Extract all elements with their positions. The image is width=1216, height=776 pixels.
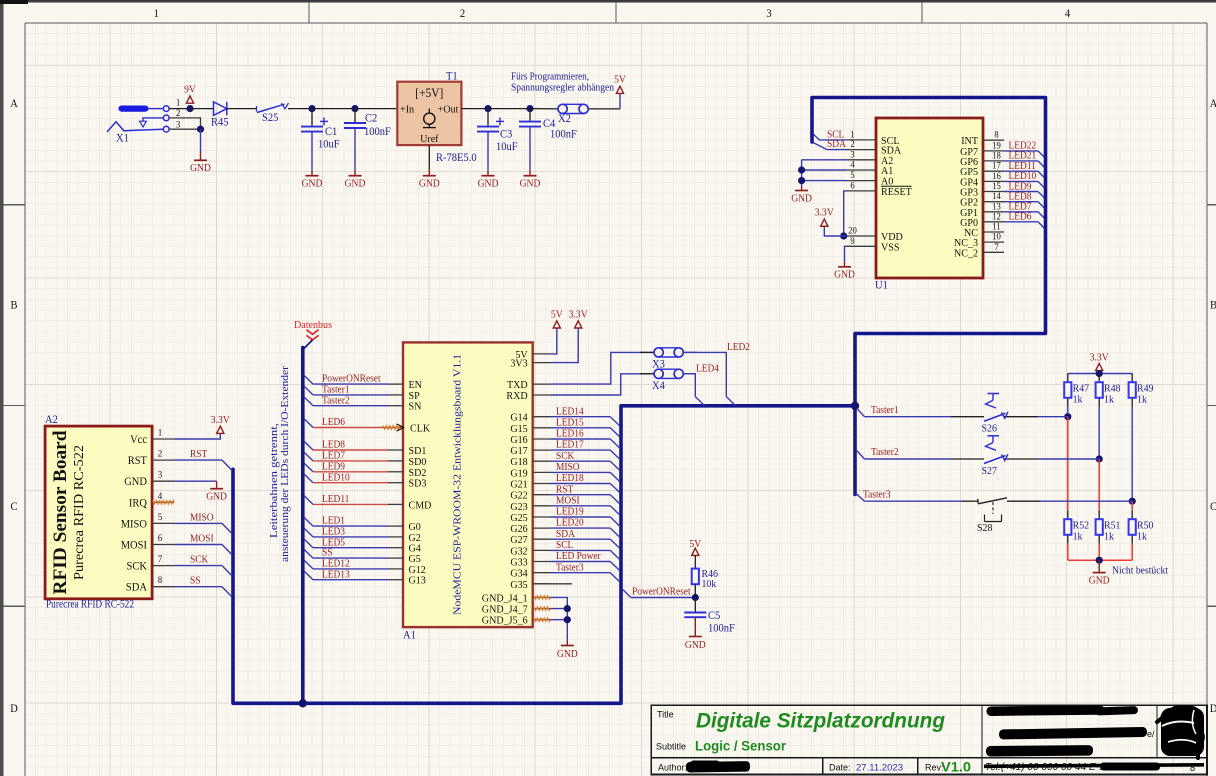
svg-text:10: 10 — [992, 233, 1001, 243]
bus entry SDA — [610, 539, 619, 548]
U1 pin 6 RESET — [846, 181, 912, 198]
U1 pin 15 GP3 — [960, 182, 1004, 199]
svg-text:20: 20 — [848, 227, 857, 237]
svg-text:SN: SN — [409, 401, 422, 413]
wire 9V to diode — [190, 108, 214, 110]
bus entry LED22 — [1038, 151, 1045, 158]
svg-text:+Out: +Out — [438, 103, 459, 115]
svg-text:GND: GND — [834, 270, 855, 281]
wire net SCL — [551, 549, 611, 551]
wire A1 GND pins — [551, 597, 568, 640]
A1 pin G2 — [388, 532, 421, 544]
svg-text:8: 8 — [1190, 763, 1196, 774]
svg-text:5V: 5V — [551, 310, 563, 321]
ground GND at A2 — [206, 489, 227, 503]
svg-text:5V: 5V — [689, 539, 701, 550]
svg-text:100nF: 100nF — [708, 622, 735, 634]
wire unpopulated gnd rail — [1068, 559, 1132, 561]
ground GND at U1 VSS — [834, 267, 855, 281]
ground GND at X1 — [190, 160, 211, 174]
wire X3 to bus LED2 — [683, 352, 726, 396]
svg-text:MISO: MISO — [556, 462, 580, 473]
wire SCK — [174, 565, 222, 567]
svg-text:19: 19 — [992, 141, 1001, 151]
resistor R49 1k — [1129, 373, 1154, 406]
wire unpopulated to R52 — [1067, 417, 1069, 511]
U1 pin 20 VDD — [846, 227, 903, 244]
svg-text:2: 2 — [460, 8, 466, 20]
wire net LED18 — [551, 483, 611, 485]
bus entry Taster3 — [610, 573, 619, 582]
svg-text:Logic / Sensor: Logic / Sensor — [695, 738, 787, 754]
redacted address line 3 — [986, 745, 1093, 756]
svg-text:R47: R47 — [1073, 382, 1090, 394]
bus entry LED20 — [610, 528, 619, 537]
svg-text:3.3V: 3.3V — [815, 208, 834, 219]
U1 pin 7 NC_2 — [954, 243, 1004, 259]
wire R48 to taster node — [1098, 407, 1100, 459]
svg-text:12: 12 — [992, 212, 1001, 222]
svg-text:LED14: LED14 — [556, 406, 584, 417]
A2 pin 3 GND — [124, 471, 174, 489]
wire SCL — [820, 139, 846, 141]
U1 pin 1 SCL — [846, 130, 900, 147]
svg-text:3: 3 — [766, 8, 772, 20]
svg-text:Taster3: Taster3 — [863, 489, 891, 500]
A1 pin G21 — [510, 479, 550, 491]
svg-text:G18: G18 — [510, 456, 528, 468]
svg-text:6: 6 — [158, 534, 163, 544]
bus entry PowerONReset — [623, 590, 631, 598]
ground GND at C3 — [478, 176, 499, 190]
svg-text:15: 15 — [992, 182, 1001, 192]
wire diode to S25 — [226, 108, 256, 110]
bus entry LED8 — [1038, 202, 1045, 209]
wire R49 to taster node — [1131, 407, 1133, 501]
svg-text:14: 14 — [992, 192, 1001, 202]
svg-text:GND: GND — [190, 163, 211, 174]
wire net LED16 — [551, 438, 611, 440]
redacted address line 2 — [999, 727, 1147, 740]
wire node C2 to T1 +In — [355, 108, 397, 110]
svg-text:RXD: RXD — [506, 390, 527, 402]
svg-text:Taster1: Taster1 — [322, 385, 350, 396]
IC U1 I/O extender — [876, 118, 983, 278]
svg-text:GND: GND — [302, 179, 323, 190]
svg-text:1k: 1k — [1104, 394, 1114, 406]
svg-text:7: 7 — [994, 243, 999, 253]
bus entry LED3 — [304, 528, 313, 537]
svg-text:A2: A2 — [45, 414, 58, 426]
svg-text:LED10: LED10 — [322, 472, 350, 483]
wire MISO — [174, 522, 222, 524]
junction GND_J4_7 — [564, 605, 571, 612]
junction node C3 — [484, 105, 491, 112]
bus entry MOSI — [222, 545, 231, 555]
wire net LED9 — [1004, 191, 1038, 193]
A2 pin 5 MISO — [121, 513, 174, 531]
A1 pin SP — [388, 390, 420, 402]
junction 3.3V rail — [1096, 370, 1103, 377]
junction node C1 — [308, 105, 315, 112]
power symbol 3.3V at U1 — [815, 208, 834, 227]
power symbol 3.3V at taster resistors — [1090, 353, 1109, 371]
wire X1 pin1 to node 9V — [169, 108, 190, 110]
bus entry MISO — [610, 472, 619, 481]
svg-text:LED12: LED12 — [322, 559, 350, 570]
svg-text:Datenbus: Datenbus — [294, 319, 332, 331]
svg-text:B: B — [11, 300, 18, 312]
wire RST — [174, 459, 222, 461]
svg-text:GND: GND — [685, 640, 706, 651]
A1 pin G15 — [510, 423, 550, 435]
capacitor C3 10uF — [477, 109, 518, 176]
wire SDA — [827, 149, 846, 151]
junction A1 — [798, 166, 805, 173]
bus entry SDA — [812, 142, 827, 150]
svg-text:LED17: LED17 — [556, 440, 584, 451]
svg-text:X4: X4 — [652, 380, 665, 392]
bus junction at taster — [851, 402, 859, 410]
wire net LED6 — [1004, 221, 1038, 223]
wire SS — [174, 586, 222, 588]
wire net LED12 — [313, 568, 388, 570]
bus entry Taster1 — [304, 386, 313, 395]
bus entry LED1 — [304, 518, 313, 527]
A1 pin G33 — [510, 557, 550, 569]
svg-text:LED20: LED20 — [556, 518, 584, 529]
wire net LED17 — [551, 449, 611, 451]
A1 pin SD0 — [388, 456, 427, 468]
wire net LED Power — [551, 561, 611, 563]
U1 pin 8 INT — [961, 131, 1004, 148]
svg-text:SDA: SDA — [827, 139, 846, 150]
svg-text:2: 2 — [158, 450, 163, 460]
wire Taster2 — [865, 458, 952, 460]
svg-text:RESET: RESET — [881, 186, 912, 198]
U1 pin 5 A0 — [846, 171, 894, 188]
A2 pin 7 SCK — [127, 555, 175, 573]
svg-text:R-78E5.0: R-78E5.0 — [436, 152, 477, 164]
svg-text:A1: A1 — [403, 630, 416, 642]
svg-text:PowerONReset: PowerONReset — [322, 374, 381, 385]
bus entry LED9 — [1038, 192, 1045, 199]
svg-text:R48: R48 — [1104, 382, 1121, 394]
bus entry RST — [222, 460, 231, 470]
bus entry PowerONReset — [304, 376, 313, 385]
svg-text:IRQ: IRQ — [129, 497, 148, 509]
power symbol 5V at A1 — [551, 310, 563, 329]
svg-text:R52: R52 — [1073, 519, 1090, 531]
wire GND pin3 — [174, 480, 217, 482]
U1 pin 4 A1 — [846, 161, 893, 178]
wire net PowerONReset — [313, 383, 388, 385]
wire A1 5V pin to 5V symbol — [551, 328, 557, 354]
junction node C2 — [351, 105, 358, 112]
svg-text:G13: G13 — [409, 575, 427, 587]
wire net RST — [551, 494, 611, 496]
svg-text:LED15: LED15 — [556, 417, 584, 428]
svg-text:LED16: LED16 — [556, 429, 584, 440]
U1 pin 3 A2 — [846, 150, 893, 167]
A1 pin 3V3 — [510, 358, 550, 370]
U1 pin 18 GP6 — [960, 151, 1004, 168]
wire T1 GND pin — [428, 145, 430, 170]
svg-text:GND: GND — [478, 179, 499, 190]
wire net LED15 — [551, 427, 611, 429]
bus entry LED10 — [304, 474, 313, 483]
wire net LED1 — [313, 525, 388, 527]
bus entry SCL — [812, 133, 820, 141]
svg-text:10k: 10k — [702, 578, 717, 590]
svg-text:R45: R45 — [211, 117, 229, 129]
A1 pin G4 — [388, 543, 421, 555]
A2 pin 6 MOSI — [121, 534, 174, 552]
svg-text:Taster1: Taster1 — [871, 405, 899, 416]
svg-text:S26: S26 — [982, 423, 998, 435]
A1 pin G22 — [510, 490, 550, 502]
svg-text:V1.0: V1.0 — [941, 759, 971, 775]
junction taster2 — [1096, 455, 1103, 462]
junction GND_J5_6 — [564, 616, 571, 623]
svg-text:Purecrea RFID RC-522: Purecrea RFID RC-522 — [46, 599, 134, 611]
voltage regulator T1 R-78E5.0 — [397, 71, 477, 165]
wire net LED14 — [551, 416, 611, 418]
power symbol 5V — [614, 75, 626, 94]
wire unpopulated to R51 — [1098, 459, 1100, 510]
wire net LED7 — [1004, 211, 1038, 213]
svg-text:G35: G35 — [510, 579, 528, 591]
svg-text:LED4: LED4 — [696, 363, 719, 374]
svg-text:Taster2: Taster2 — [322, 395, 350, 406]
bus wire datenbus vertical — [301, 348, 305, 704]
A1 pin G35 — [510, 579, 550, 591]
A1 pin GND_J5_6 — [482, 615, 551, 627]
svg-text:GND: GND — [791, 194, 812, 205]
svg-text:U1: U1 — [875, 280, 888, 292]
junction taster3 — [1129, 498, 1136, 505]
bus entry LED6 — [304, 419, 313, 428]
junction gnd rail — [1096, 557, 1103, 564]
wire R51 to gnd rail — [1098, 544, 1100, 560]
svg-text:MISO: MISO — [121, 518, 147, 530]
svg-text:SDA: SDA — [556, 529, 575, 540]
svg-text:SCK: SCK — [127, 561, 148, 573]
svg-text:5: 5 — [158, 513, 163, 523]
svg-text:GND: GND — [520, 179, 541, 190]
wire Vcc to 3.3V — [174, 433, 220, 439]
A1 pin SD2 — [388, 467, 426, 479]
resistor R52 1k — [1064, 510, 1089, 543]
bus entry SS — [304, 550, 313, 559]
svg-text:LED19: LED19 — [556, 507, 584, 518]
bus entry LED12 — [304, 560, 313, 569]
svg-text:1k: 1k — [1137, 531, 1147, 543]
ground GND at resistor network — [1089, 573, 1110, 587]
wire net LED11 — [313, 503, 388, 505]
bus entry LED10 — [1038, 181, 1045, 188]
svg-text:1: 1 — [158, 429, 163, 439]
bus entry LED11 — [1038, 171, 1045, 178]
wire net LED20 — [551, 527, 611, 529]
svg-text:9V: 9V — [184, 85, 196, 96]
svg-text:R50: R50 — [1137, 519, 1154, 531]
svg-text:Title: Title — [657, 710, 674, 720]
ground GND at A1 — [557, 646, 578, 661]
wire U1 VSS to GND — [845, 246, 847, 262]
svg-text:RST: RST — [556, 484, 574, 495]
wire net MOSI — [551, 505, 611, 507]
svg-text:27.11.2023: 27.11.2023 — [856, 763, 903, 774]
bus entry LED9 — [304, 463, 313, 472]
junction PowerONReset — [692, 594, 699, 601]
wire X2 to 5V — [588, 108, 620, 110]
wire X1 pin2/pin3 to GND — [169, 118, 200, 129]
svg-text:6: 6 — [850, 181, 855, 191]
junction node 9V — [186, 105, 193, 112]
bus junction bottom — [299, 699, 307, 707]
svg-text:3: 3 — [850, 150, 855, 160]
redacted address line 1 — [986, 705, 1104, 716]
wire R52 to gnd rail — [1067, 544, 1069, 560]
svg-text:Subtitle: Subtitle — [656, 742, 686, 752]
svg-text:LED5: LED5 — [322, 537, 345, 548]
bus entry LED14 — [610, 417, 619, 426]
svg-text:5: 5 — [850, 171, 855, 181]
svg-text:18: 18 — [992, 151, 1001, 161]
svg-text:13: 13 — [992, 202, 1001, 212]
A1 pin G32 — [510, 545, 550, 557]
svg-text:+In: +In — [400, 103, 415, 115]
bus entry MOSI — [610, 506, 619, 515]
svg-text:CLK: CLK — [410, 423, 430, 435]
wire net LED3 — [313, 536, 388, 538]
bus entry LED Power — [610, 562, 619, 571]
svg-text:4: 4 — [1065, 8, 1071, 20]
wire net LED6 — [313, 427, 383, 429]
A1 pin SD1 — [388, 445, 426, 457]
wire net LED8 — [1004, 201, 1038, 203]
wire A1 3V3 pin to 3.3V symbol — [551, 328, 579, 363]
wire R50 to gnd rail — [1131, 544, 1133, 560]
A1 pin EN — [388, 379, 422, 391]
svg-text:R49: R49 — [1137, 382, 1154, 394]
svg-text:GND: GND — [345, 179, 366, 190]
bus entry LED7 — [304, 452, 313, 461]
svg-text:1: 1 — [850, 130, 855, 140]
A1 pin G5 — [388, 553, 421, 565]
wire net SDA — [551, 538, 611, 540]
svg-text:LED8: LED8 — [322, 440, 345, 451]
redacted logo scribble — [1157, 702, 1207, 758]
resistor R46 10k — [692, 568, 719, 590]
A2 pin 1 Vcc — [130, 429, 174, 447]
wire R46 to node — [694, 584, 696, 597]
svg-text:SCK: SCK — [190, 555, 209, 566]
svg-text:LED6: LED6 — [1009, 212, 1032, 223]
wire node C4 to X2 — [530, 108, 558, 110]
A1 pin TXD — [507, 379, 551, 391]
svg-text:G21: G21 — [510, 479, 527, 491]
connector X1 barrel jack — [107, 106, 169, 145]
svg-text:MOSI: MOSI — [121, 540, 147, 552]
A1 pin G18 — [510, 456, 550, 468]
bus entry MISO — [222, 523, 231, 533]
switch S27 — [982, 436, 1009, 477]
power symbol 5V at R46 — [689, 539, 701, 555]
bus entry LED15 — [610, 428, 619, 437]
A1 pin G12 — [388, 564, 426, 576]
bus entry LED4 — [695, 397, 704, 406]
svg-text:Uref: Uref — [420, 133, 439, 145]
svg-text:17: 17 — [992, 162, 1001, 172]
A1 pin SN — [388, 401, 421, 413]
svg-text:G15: G15 — [510, 423, 528, 435]
ground GND at C2 — [345, 176, 366, 190]
module A2 RFID sensor board — [45, 426, 152, 599]
redacted author name — [686, 761, 750, 772]
svg-text:GND_J4_1: GND_J4_1 — [482, 592, 528, 604]
A1 pin G35 wire stub — [533, 583, 572, 585]
bus entry SCK — [222, 566, 231, 576]
svg-text:LED13: LED13 — [322, 569, 350, 580]
svg-text:SS: SS — [322, 548, 333, 559]
svg-text:16: 16 — [992, 172, 1001, 182]
svg-text:C5: C5 — [708, 610, 721, 622]
bus entry RST — [610, 495, 619, 504]
A1 pin G0 — [388, 521, 421, 533]
U1 pin 10 NC_3 — [954, 233, 1004, 250]
svg-text:A: A — [1210, 98, 1216, 110]
A1 pin G14 — [510, 412, 550, 424]
svg-text:C2: C2 — [365, 113, 378, 125]
bus entry Taster2 — [857, 451, 865, 459]
svg-text:D: D — [1210, 703, 1216, 715]
svg-text:9: 9 — [850, 237, 855, 247]
A1 pin RXD — [506, 390, 550, 402]
A1 pin SD3 — [388, 478, 427, 490]
wire T1 +Out to node C3 — [461, 108, 488, 110]
wire Taster3 — [865, 500, 963, 502]
svg-text:A: A — [10, 98, 18, 110]
svg-text:4: 4 — [850, 161, 855, 171]
ground GND at C5 — [685, 637, 706, 652]
wire net LED11 — [1004, 170, 1038, 172]
U1 pin 12 GP0 — [960, 212, 1004, 229]
svg-text:D: D — [10, 703, 18, 715]
A1 pin CLK — [383, 423, 430, 435]
note text programming — [511, 71, 615, 94]
svg-text:LED9: LED9 — [322, 461, 345, 472]
svg-text:GND: GND — [557, 649, 578, 660]
bus wire taster to esp and rfid — [233, 406, 855, 704]
title block texts — [656, 710, 971, 775]
svg-text:11: 11 — [992, 223, 1001, 233]
A2 pin 8 SDA — [126, 576, 174, 594]
bus entry LED8 — [304, 441, 313, 450]
svg-text:SD3: SD3 — [409, 478, 427, 490]
wire MOSI — [174, 544, 222, 546]
svg-text:RFID Sensor Board: RFID Sensor Board — [50, 430, 71, 594]
wire net Taster1 — [313, 394, 388, 396]
svg-text:G23: G23 — [510, 501, 528, 513]
svg-text:5V: 5V — [614, 75, 626, 86]
wire net Taster2 — [313, 405, 388, 407]
svg-text:MOSI: MOSI — [556, 495, 580, 506]
junction A0 — [798, 177, 805, 184]
svg-text:GND_J5_6: GND_J5_6 — [482, 615, 528, 627]
wire net LED10 — [1004, 180, 1038, 182]
